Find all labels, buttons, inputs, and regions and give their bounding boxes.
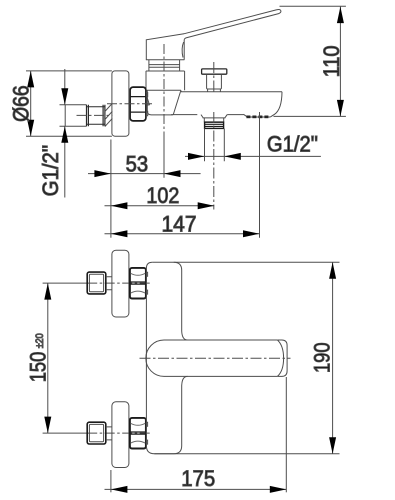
dim 110 arrows <box>337 7 344 117</box>
body centerline <box>163 44 165 140</box>
inlet centerline <box>107 103 152 105</box>
top escutcheon (front) <box>112 250 129 317</box>
spout left round end <box>146 340 164 376</box>
dim 110 line <box>339 7 341 117</box>
body/spout top edge <box>147 90 282 92</box>
spout centerline <box>140 357 291 359</box>
dim 110 extension lines <box>274 6 346 116</box>
dim 102 left extension line <box>110 140 112 238</box>
body-spout fillets <box>182 331 188 386</box>
svg-text:G1/2": G1/2" <box>38 145 63 197</box>
body outline (front) <box>146 262 181 453</box>
svg-text:G1/2": G1/2" <box>267 131 318 156</box>
top eccentric fitting <box>87 272 106 294</box>
spout (front) <box>164 340 277 376</box>
mixer body <box>146 71 185 90</box>
outlet centerline <box>213 62 215 210</box>
dim Ø66 line <box>30 71 32 136</box>
wall pipe stub <box>60 105 87 126</box>
dim 102 arrows <box>111 202 214 209</box>
spout tip curve <box>270 92 282 117</box>
nut far corner tabs <box>146 93 148 116</box>
dim 53 line <box>88 173 201 175</box>
bottom escutcheon (front) <box>112 402 129 468</box>
wall escutcheon (side view) <box>112 71 129 136</box>
dim 102 line <box>105 205 215 207</box>
top nut corner tabs <box>146 272 148 294</box>
svg-text:102: 102 <box>146 183 179 208</box>
dim 190 extension lines <box>152 262 339 453</box>
handle cap underside seam <box>182 42 183 58</box>
dim 150 line <box>47 283 49 433</box>
svg-text:190: 190 <box>309 342 334 373</box>
bottom connection centerline <box>43 432 88 434</box>
bottom nut corner tabs <box>146 422 148 444</box>
aerator housing <box>244 114 271 117</box>
diverter knob legs <box>208 89 221 92</box>
top fitting neck <box>106 277 112 290</box>
outlet thread extension lines <box>205 129 225 162</box>
lever handle blade <box>184 10 281 40</box>
outlet funnel <box>201 115 227 118</box>
svg-text:Ø66: Ø66 <box>8 85 33 122</box>
svg-text:110: 110 <box>319 45 344 77</box>
dim 147 arrows <box>111 230 260 237</box>
dim Ø66 arrows <box>27 71 34 136</box>
dim 53 arrows <box>94 170 180 177</box>
aerator teeth <box>246 116 268 119</box>
spout end cap seam <box>277 340 283 376</box>
svg-text:147: 147 <box>162 211 197 236</box>
dim Ø66 extension lines <box>26 71 112 136</box>
wall pipe centerline <box>77 114 113 116</box>
spout end cap <box>277 340 287 376</box>
dim 190 line <box>332 262 334 453</box>
hex nut (side view) <box>130 87 146 121</box>
spout bottom edge <box>171 114 243 116</box>
svg-text:53: 53 <box>126 151 149 176</box>
nut-body wedge <box>146 95 149 106</box>
wall thread block <box>87 105 105 126</box>
bottom fitting neck <box>106 427 112 440</box>
diverter knob stem <box>207 74 222 89</box>
dim 190 arrows <box>329 262 336 453</box>
bottom eccentric fitting <box>87 422 106 444</box>
dim G1/2 left line <box>64 69 66 198</box>
body underside <box>147 90 181 115</box>
dim 147 line <box>105 233 260 235</box>
top connection centerline <box>43 282 88 284</box>
dim G1/2 outlet line <box>185 155 321 157</box>
body centerline extension <box>163 140 165 178</box>
bottom nut (front) <box>130 418 146 449</box>
aerator extension line <box>259 112 261 238</box>
dim 175 line <box>105 488 287 490</box>
svg-text:±20: ±20 <box>34 333 46 348</box>
dim 150 arrows <box>44 283 51 433</box>
svg-text:175: 175 <box>181 466 215 491</box>
top nut (front) <box>130 268 146 299</box>
outlet collar <box>204 118 224 122</box>
diverter knob cap <box>202 69 227 74</box>
dim 175 arrows <box>111 486 286 493</box>
dim 175 right extension line <box>285 377 287 492</box>
dim 175 left extension line <box>110 470 112 492</box>
svg-text:150: 150 <box>26 352 51 383</box>
dim G1/2 left arrows <box>61 88 68 142</box>
handle cap <box>146 34 184 60</box>
cartridge ring <box>146 60 185 71</box>
outlet thread block G1/2 <box>205 122 224 128</box>
dim G1/2 outlet arrows <box>188 153 241 160</box>
thread engagement hatch <box>105 103 112 126</box>
